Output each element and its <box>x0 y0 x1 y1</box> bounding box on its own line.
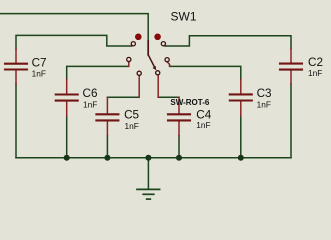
svg-text:1nF: 1nF <box>196 120 210 130</box>
svg-text:C6: C6 <box>83 87 98 100</box>
svg-text:C7: C7 <box>32 56 47 69</box>
svg-text:1nF: 1nF <box>83 100 97 110</box>
svg-text:C3: C3 <box>257 87 272 100</box>
svg-text:C5: C5 <box>124 108 139 121</box>
svg-text:SW-ROT-6: SW-ROT-6 <box>170 98 210 107</box>
svg-text:SW1: SW1 <box>171 10 197 24</box>
svg-text:1nF: 1nF <box>125 121 139 131</box>
svg-text:1nF: 1nF <box>257 100 271 110</box>
svg-text:1nF: 1nF <box>308 68 322 78</box>
svg-text:1nF: 1nF <box>32 69 46 79</box>
